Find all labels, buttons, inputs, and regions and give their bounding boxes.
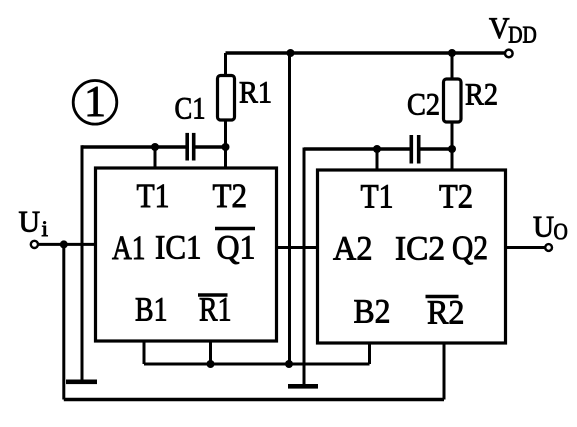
junction node on Ui wire [60, 240, 68, 248]
output terminal Uo [545, 244, 552, 251]
label R2 bar [426, 295, 465, 332]
wire Q2 to Uo [506, 246, 546, 249]
svg-text:B1: B1 [135, 292, 168, 329]
wire C1 left to ground [81, 145, 84, 381]
capacitor C1 [82, 133, 226, 161]
svg-text:V: V [489, 12, 510, 45]
wire VDD rail [226, 51, 506, 54]
svg-text:C1: C1 [175, 91, 206, 126]
wire Q1bar to A2 [276, 246, 318, 249]
wire rail to R1 [224, 53, 227, 77]
svg-text:T2: T2 [439, 179, 473, 216]
svg-text:O: O [554, 219, 568, 244]
svg-text:R2: R2 [465, 77, 498, 112]
junction VDD rail middle node [287, 49, 295, 57]
svg-text:R1: R1 [199, 292, 232, 329]
wire T1 stub IC2 [376, 149, 379, 171]
label Ui [19, 206, 49, 241]
svg-text:IC1: IC1 [155, 230, 202, 267]
VDD terminal [505, 50, 513, 58]
junction node T2/C1/R1 [222, 143, 230, 151]
svg-text:U: U [19, 206, 41, 239]
wire Ui node down left side [62, 244, 65, 399]
capacitor C2 [304, 135, 452, 164]
wire R2 to C2 node [451, 122, 454, 150]
label Q1 bar [215, 229, 256, 267]
wire VDD middle drop [288, 53, 291, 364]
junction node T2/R2 IC2 [448, 145, 456, 153]
wire R1bar stub [209, 341, 212, 364]
wire bottom run to R2bar [64, 398, 444, 401]
svg-text:Q1: Q1 [217, 230, 256, 267]
resistor R2 [444, 79, 462, 122]
svg-text:IC2: IC2 [395, 231, 445, 268]
circled figure label 1 [73, 77, 117, 126]
wire T1 stub IC1 [154, 147, 157, 170]
svg-text:DD: DD [508, 23, 537, 49]
label R1 bar [198, 292, 232, 329]
IC1 box [96, 168, 277, 341]
ground (left) [66, 380, 97, 385]
junction node T1 IC2 [373, 145, 381, 153]
svg-text:T1: T1 [361, 179, 394, 216]
svg-text:U: U [533, 210, 554, 243]
svg-text:Q2: Q2 [452, 230, 488, 267]
wire T2 stub IC1 [224, 147, 227, 170]
svg-text:T1: T1 [137, 178, 170, 215]
svg-text:A2: A2 [333, 231, 373, 268]
wire B1 to B2 bottom run [144, 363, 370, 366]
label VDD [489, 12, 537, 49]
junction middle drop node [285, 360, 293, 368]
wire Ui to A1 [38, 243, 96, 246]
junction VDD rail R2 node [448, 49, 456, 57]
svg-text:B2: B2 [354, 294, 391, 331]
wire R2bar stub up [443, 343, 446, 400]
svg-text:1: 1 [84, 77, 106, 126]
input terminal Ui [31, 241, 38, 248]
junction R1bar node [207, 360, 215, 368]
wire rail to R2 [451, 53, 454, 80]
label Uo [533, 210, 568, 244]
ground (middle) [288, 384, 318, 389]
wire T2 stub IC2 [451, 149, 454, 171]
svg-text:R1: R1 [239, 75, 272, 110]
wire B1 stub [143, 341, 146, 364]
wire R1 to C1 node [224, 120, 227, 148]
IC2 box [318, 170, 506, 343]
junction node T1 [151, 143, 159, 151]
svg-text:T2: T2 [213, 178, 248, 215]
svg-text:i: i [42, 216, 49, 241]
svg-text:C2: C2 [407, 87, 440, 122]
wire B2 riser [368, 343, 371, 364]
svg-text:R2: R2 [427, 295, 465, 332]
resistor R1 [218, 76, 235, 121]
svg-text:A1: A1 [112, 230, 146, 267]
wire C2 left drop to ground [303, 148, 306, 386]
